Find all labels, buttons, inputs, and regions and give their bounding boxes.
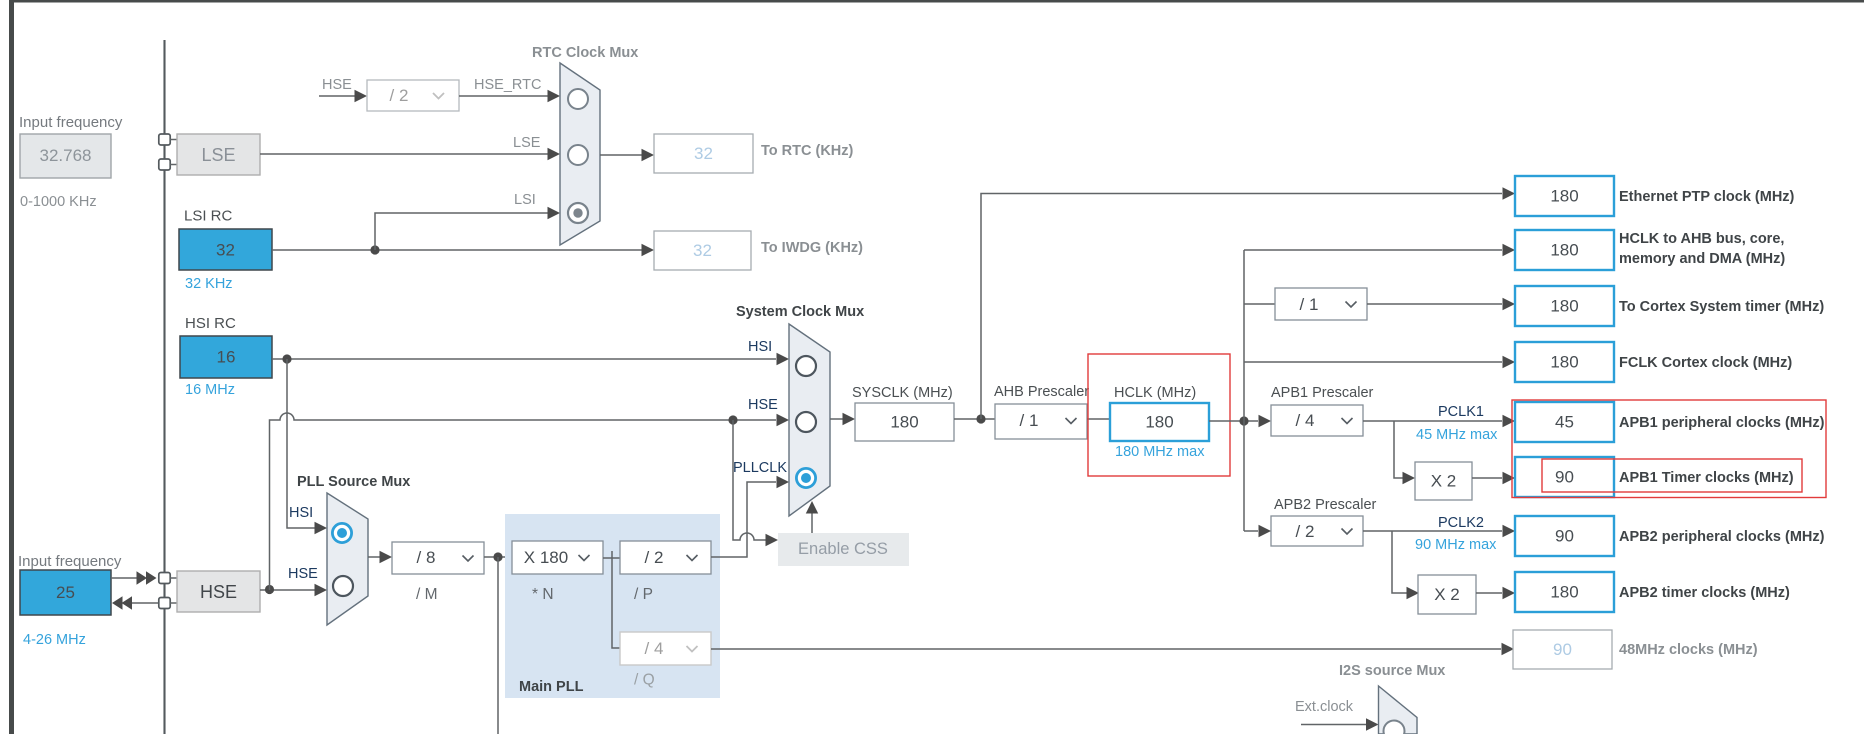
node HCLK trunk — [1239, 416, 1248, 425]
HSE pin square lower — [159, 598, 170, 609]
divider /2 (P) — [620, 541, 711, 574]
wire 25 box to HSE pin — [111, 577, 138, 579]
svg-text:180: 180 — [1550, 583, 1578, 602]
wire Q output to 48MHz clocks — [711, 648, 1501, 650]
svg-text:PCLK1: PCLK1 — [1438, 404, 1484, 420]
svg-text:180 MHz max: 180 MHz max — [1115, 444, 1205, 460]
svg-text:/ 4: / 4 — [1296, 411, 1315, 430]
output box APB2 timer 180 — [1515, 572, 1614, 612]
svg-text:LSI: LSI — [514, 192, 536, 208]
LSE pin square lower — [159, 159, 170, 170]
svg-text:RTC Clock Mux: RTC Clock Mux — [532, 45, 638, 61]
mux I2S source Mux — [1379, 686, 1418, 734]
wire AHB to HCLK — [1087, 418, 1110, 420]
svg-text:32: 32 — [216, 241, 235, 260]
svg-text:90: 90 — [1555, 468, 1574, 487]
mux RTC Clock Mux — [560, 63, 600, 245]
wire HSI output — [272, 358, 776, 360]
wire HSE stub to divider — [319, 95, 355, 97]
divider /2 (HSE RTC) — [367, 80, 459, 111]
wire LSI riser — [375, 213, 548, 250]
wire ahb arrow tail — [1489, 249, 1502, 251]
svg-text:HSE_RTC: HSE_RTC — [474, 77, 541, 93]
Main PLL panel — [505, 514, 720, 698]
wire X2 APB1 out — [1472, 477, 1502, 479]
wire Enable CSS up arrow — [811, 512, 813, 533]
output box APB1 peripheral 45 — [1515, 402, 1614, 442]
svg-text:HCLK (MHz): HCLK (MHz) — [1114, 385, 1196, 401]
node HSI branch — [282, 354, 291, 363]
radio RTC LSI selected — [568, 203, 588, 223]
LSE pin square upper — [159, 134, 170, 145]
arrow LSI into RTC mux — [548, 207, 561, 219]
svg-text:180: 180 — [1550, 297, 1578, 316]
wire divider to RTC mux — [459, 95, 548, 97]
input box 32.768 — [20, 134, 111, 178]
wire ethernet riser — [981, 194, 1489, 420]
wire HCLK trunk vertical — [1243, 250, 1245, 531]
radio PLL HSI selected — [332, 523, 351, 542]
wire APB2 branch to X2 — [1392, 531, 1407, 593]
wire vertical bus — [163, 40, 165, 734]
svg-text:To RTC (KHz): To RTC (KHz) — [761, 143, 854, 159]
wire LSI horizontal to IWDG — [272, 249, 642, 251]
multiplier X2 APB2 — [1418, 575, 1476, 614]
wire HSE run segment past node — [726, 419, 740, 421]
svg-text:SYSCLK (MHz): SYSCLK (MHz) — [852, 385, 953, 401]
oscillator HSI RC box 16 — [180, 336, 272, 378]
svg-text:X 2: X 2 — [1434, 585, 1460, 604]
svg-text:180: 180 — [1145, 413, 1173, 432]
output box To IWDG 32 — [654, 231, 751, 270]
svg-text:To Cortex System timer (MHz): To Cortex System timer (MHz) — [1619, 299, 1824, 315]
svg-text:LSI RC: LSI RC — [184, 208, 233, 225]
wire HSE output — [260, 589, 315, 591]
wire divider M to PLL N — [484, 556, 512, 558]
svg-text:/ 1: / 1 — [1020, 411, 1039, 430]
svg-text:APB1 Prescaler: APB1 Prescaler — [1271, 385, 1374, 401]
svg-text:To IWDG (KHz): To IWDG (KHz) — [761, 240, 863, 256]
wire PLL input drop to bottom — [497, 557, 499, 734]
svg-text:APB2 timer clocks (MHz): APB2 timer clocks (MHz) — [1619, 585, 1790, 601]
wire APB2 divider to PCLK2 box — [1363, 530, 1502, 532]
arrow LSE into RTC mux — [548, 148, 561, 160]
svg-text:HSI RC: HSI RC — [185, 315, 236, 332]
wire trunk to cortex divider — [1244, 303, 1275, 305]
arrow into RTC divider — [355, 90, 368, 102]
node SYSCLK to ethernet branch — [976, 414, 985, 423]
output box FCLK 180 — [1515, 342, 1614, 382]
svg-text:90: 90 — [1555, 527, 1574, 546]
divider APB2 /2 — [1271, 516, 1363, 546]
svg-text:/ 2: / 2 — [645, 548, 664, 567]
wire LSE pin stubs — [170, 140, 177, 165]
output box HCLK 180 — [1110, 403, 1209, 441]
wire HSE drop to Enable CSS with hop over PLLCLK — [733, 420, 766, 540]
label HCLK to AHB — [1619, 231, 1785, 267]
svg-text:0-1000 KHz: 0-1000 KHz — [20, 194, 97, 210]
svg-text:32 KHz: 32 KHz — [185, 276, 233, 292]
svg-text:HSE: HSE — [288, 566, 318, 582]
svg-text:48MHz clocks (MHz): 48MHz clocks (MHz) — [1619, 642, 1758, 658]
wire HSE return — [130, 602, 159, 604]
svg-text:APB2 peripheral clocks (MHz): APB2 peripheral clocks (MHz) — [1619, 529, 1825, 545]
radio SYS HSE — [796, 412, 816, 432]
arrow HSE into PLL Source Mux — [315, 584, 328, 596]
svg-text:32.768: 32.768 — [40, 146, 92, 165]
svg-text:Enable CSS: Enable CSS — [798, 540, 888, 558]
arrow into HCLK AHB box — [1503, 244, 1516, 256]
svg-text:I2S source Mux: I2S source Mux — [1339, 663, 1445, 679]
arrow HSI into System Clock Mux — [777, 353, 790, 365]
svg-text:Input frequency: Input frequency — [18, 553, 122, 570]
divider /4 (Q) disabled — [620, 632, 711, 665]
wire LSE to RTC mux — [260, 153, 548, 155]
svg-text:90 MHz max: 90 MHz max — [1415, 537, 1497, 553]
wire APB1 branch to X2 — [1394, 421, 1403, 478]
output box HCLK AHB 180 — [1515, 230, 1614, 270]
svg-text:X 2: X 2 — [1431, 472, 1457, 491]
arrow into APB2 prescaler — [1259, 525, 1272, 537]
arrow into APB1 prescaler — [1259, 415, 1272, 427]
divider APB1 /4 — [1271, 405, 1363, 436]
svg-text:90: 90 — [1553, 640, 1572, 659]
arrow into APB1 peripheral box — [1503, 415, 1516, 427]
svg-text:Ext.clock: Ext.clock — [1295, 699, 1354, 715]
svg-text:/ 8: / 8 — [417, 548, 436, 567]
mux System Clock Mux — [789, 324, 830, 516]
arrow into divider M — [380, 551, 393, 563]
output box 48MHz 90 — [1513, 630, 1612, 669]
red highlight rect HCLK — [1088, 354, 1230, 476]
wire HSE pin stub lower — [170, 602, 177, 604]
multiplier X2 APB1 — [1415, 462, 1472, 500]
arrow into To RTC box — [642, 149, 655, 161]
output box To RTC 32 — [654, 134, 753, 173]
svg-text:memory and DMA (MHz): memory and DMA (MHz) — [1619, 251, 1785, 267]
divider cortex /1 — [1275, 288, 1367, 320]
svg-text:45 MHz max: 45 MHz max — [1416, 427, 1498, 443]
svg-text:PLLCLK: PLLCLK — [733, 460, 787, 476]
node HSE to CSS branch — [728, 415, 737, 424]
oscillator LSE box — [177, 134, 260, 175]
arrow HSE into System Clock Mux — [777, 414, 790, 426]
svg-text:/ M: / M — [416, 586, 438, 603]
svg-text:180: 180 — [1550, 187, 1578, 206]
wire HCLK output — [1209, 420, 1258, 422]
arrow into APB2 timer box — [1503, 587, 1516, 599]
output box APB1 timer 90 — [1515, 457, 1614, 497]
arrow into cortex timer box — [1503, 298, 1516, 310]
arrow into I2S mux — [1366, 718, 1379, 730]
panel left border — [9, 0, 14, 734]
svg-text:32: 32 — [694, 144, 713, 163]
wire APB1 divider to PCLK1 box — [1363, 420, 1502, 422]
wire cortex divider to box — [1367, 303, 1502, 305]
arrow into APB2 X2 — [1407, 587, 1420, 599]
wire HSE pin stub upper — [170, 577, 177, 579]
svg-text:HSE: HSE — [322, 77, 352, 93]
wire PLLCLK from P to System Clock Mux — [711, 482, 776, 557]
wire HSE riser and run to System Clock Mux with hop over HSI drop — [270, 413, 777, 590]
svg-text:LSE: LSE — [201, 145, 235, 165]
button Enable CSS — [778, 533, 909, 566]
svg-text:HCLK to AHB bus, core,: HCLK to AHB bus, core, — [1619, 231, 1784, 247]
svg-text:LSE: LSE — [513, 135, 541, 151]
svg-text:APB2 Prescaler: APB2 Prescaler — [1274, 497, 1377, 513]
wire PLL mux output — [368, 556, 380, 558]
svg-text:Ethernet PTP clock (MHz): Ethernet PTP clock (MHz) — [1619, 189, 1795, 205]
svg-text:Main PLL: Main PLL — [519, 679, 584, 695]
radio I2S ext — [1384, 721, 1405, 734]
wire ethernet arrow tail — [1489, 193, 1502, 195]
svg-text:/ Q: / Q — [634, 672, 655, 689]
svg-text:HSE: HSE — [748, 397, 778, 413]
arrow into APB1 timer box — [1503, 472, 1516, 484]
radio RTC HSE_RTC — [568, 89, 588, 109]
radio PLL HSE — [333, 576, 353, 596]
oscillator HSE box — [177, 571, 260, 612]
svg-text:* N: * N — [532, 586, 554, 603]
node PLL input branch — [493, 552, 502, 561]
svg-text:/ 2: / 2 — [390, 86, 409, 105]
svg-text:16 MHz: 16 MHz — [185, 382, 235, 398]
arrow PLLCLK into System Clock Mux — [777, 476, 790, 488]
output box Ethernet PTP 180 — [1515, 176, 1614, 216]
divider /8 (M) — [392, 542, 484, 574]
svg-text:25: 25 — [56, 583, 75, 602]
svg-text:4-26 MHz: 4-26 MHz — [23, 632, 86, 648]
wire HSI drop to PLL mux — [287, 359, 315, 528]
arrow into FCLK box — [1503, 356, 1516, 368]
svg-text:PCLK2: PCLK2 — [1438, 515, 1484, 531]
svg-text:/ P: / P — [634, 586, 653, 603]
arrow HSE_RTC into RTC mux — [548, 90, 561, 102]
svg-text:FCLK Cortex clock (MHz): FCLK Cortex clock (MHz) — [1619, 355, 1792, 371]
wire RTC mux output — [600, 154, 642, 156]
panel top border — [9, 0, 1864, 3]
mux PLL Source Mux — [327, 493, 368, 625]
arrow into Ethernet box — [1503, 187, 1516, 199]
svg-text:180: 180 — [890, 413, 918, 432]
arrow into 48MHz box — [1502, 643, 1515, 655]
wire trunk to AHB bus row — [1244, 249, 1489, 251]
arrow double into HSE pin — [137, 571, 157, 584]
svg-text:PLL Source Mux: PLL Source Mux — [297, 474, 410, 490]
svg-text:System Clock Mux: System Clock Mux — [736, 304, 864, 320]
wire trunk to APB2 arrow — [1244, 530, 1258, 532]
svg-text:AHB Prescaler: AHB Prescaler — [994, 384, 1089, 400]
wire trunk to FCLK row — [1244, 361, 1502, 363]
radio SYS PLLCLK selected — [796, 468, 815, 487]
svg-text:180: 180 — [1550, 353, 1578, 372]
arrow into Enable CSS — [766, 534, 779, 546]
HSE pin square upper — [159, 573, 170, 584]
output box APB2 peripheral 90 — [1515, 516, 1614, 556]
arrow into APB2 peripheral box — [1503, 525, 1516, 537]
svg-text:/ 1: / 1 — [1300, 295, 1319, 314]
red highlight rect APB1 outer — [1512, 400, 1826, 498]
svg-text:HSI: HSI — [289, 505, 313, 521]
output box SYSCLK 180 — [855, 403, 954, 441]
divider AHB /1 — [995, 404, 1087, 439]
svg-text:/ 4: / 4 — [645, 639, 664, 658]
svg-text:Input frequency: Input frequency — [19, 114, 123, 131]
arrow into SYSCLK box — [843, 413, 856, 425]
wire sys mux output — [830, 418, 843, 420]
arrow CSS into mux — [806, 501, 818, 514]
wire SYSCLK to AHB prescaler — [954, 418, 995, 420]
svg-text:16: 16 — [217, 348, 236, 367]
arrow double out of HSE pin — [112, 596, 132, 609]
svg-text:32: 32 — [693, 241, 712, 260]
radio SYS HSI — [796, 356, 816, 376]
svg-text:180: 180 — [1550, 241, 1578, 260]
wire N to P — [603, 551, 620, 648]
node HSE branch — [265, 585, 274, 594]
radio RTC LSE — [568, 145, 588, 165]
wire X2 APB2 out — [1476, 592, 1502, 594]
arrow HSI into PLL Source Mux — [315, 522, 328, 534]
output box cortex timer 180 — [1515, 286, 1614, 326]
svg-text:HSE: HSE — [200, 582, 237, 602]
multiplier X 180 (N) — [512, 541, 603, 574]
red highlight rect APB1 timer inner — [1542, 459, 1802, 492]
svg-text:X 180: X 180 — [524, 548, 568, 567]
arrow into APB1 X2 — [1403, 472, 1416, 484]
svg-text:APB1 Timer clocks (MHz): APB1 Timer clocks (MHz) — [1619, 470, 1794, 486]
arrow into To IWDG box — [642, 244, 655, 256]
svg-text:/ 2: / 2 — [1296, 522, 1315, 541]
svg-text:45: 45 — [1555, 413, 1574, 432]
node LSI branch — [370, 245, 379, 254]
oscillator LSI RC box 32 — [179, 229, 272, 270]
svg-text:APB1 peripheral clocks (MHz): APB1 peripheral clocks (MHz) — [1619, 415, 1825, 431]
input box 25 — [20, 570, 111, 615]
svg-text:HSI: HSI — [748, 339, 772, 355]
wire ext clock to I2S mux — [1301, 724, 1366, 726]
